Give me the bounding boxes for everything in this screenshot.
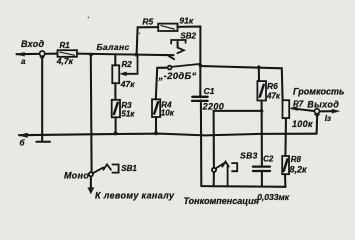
svg-text:10к: 10к [161,109,175,118]
svg-text:91к: 91к [179,16,193,26]
svg-text:Баланс: Баланс [97,42,130,52]
svg-text:R7: R7 [293,100,304,109]
svg-text:Тонкомпенсация: Тонкомпенсация [184,196,260,206]
svg-text:SB1: SB1 [121,164,137,173]
svg-text:0,033мк: 0,033мк [257,192,290,202]
svg-text:Iз: Iз [325,114,331,123]
svg-text:К левому каналу: К левому каналу [95,191,175,201]
svg-text:51к: 51к [121,110,135,119]
svg-text:R1: R1 [60,41,71,50]
svg-text:„-20дБ“: „-20дБ“ [158,71,197,82]
svg-text:R6: R6 [267,81,278,91]
svg-text:2200: 2200 [202,102,225,112]
svg-text:4,7к: 4,7к [56,56,74,66]
svg-text:SB3: SB3 [240,151,258,161]
svg-text:100к: 100к [292,119,313,129]
svg-text:SB2: SB2 [180,32,196,41]
svg-text:а: а [21,57,26,66]
svg-text:Вход: Вход [21,39,45,49]
svg-text:R5: R5 [142,17,153,27]
svg-text:47к: 47к [266,92,281,101]
svg-text:R2: R2 [122,60,133,69]
svg-text:8,2к: 8,2к [290,165,308,175]
svg-text:С2: С2 [263,155,274,164]
svg-text:Моно: Моно [64,171,89,181]
svg-text:Громкость: Громкость [293,87,344,97]
svg-text:47к: 47к [120,79,135,89]
svg-text:Выход: Выход [307,100,339,110]
svg-text:R8: R8 [291,155,302,164]
svg-text:С1: С1 [204,86,215,96]
